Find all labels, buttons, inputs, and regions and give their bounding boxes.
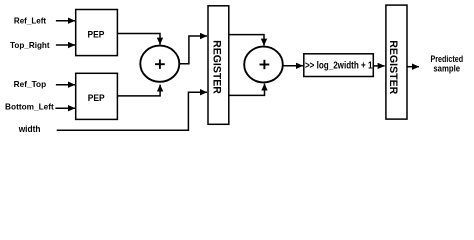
svg-text:REGISTER: REGISTER: [387, 40, 399, 94]
wire shifter U4 output to REGISTER U5: [374, 65, 385, 67]
block shifter U4 log_2width: [304, 54, 374, 77]
wire arrow Ref_Left to PEP U1 pin 1: [56, 20, 75, 22]
plus sign adder A1: [155, 60, 165, 69]
register U3: [208, 6, 229, 125]
svg-text:width: width: [18, 124, 41, 134]
svg-text:Ref_Top: Ref_Top: [14, 79, 47, 89]
wire REGISTER U3 lower output to adder A2 bottom: [229, 84, 265, 96]
wire arrow Top_Right to PEP U1 pin 2: [56, 44, 75, 46]
wire arrow Bottom_Left to PEP U2 pin 2: [55, 107, 75, 109]
svg-text:>> log_2width + 1: >> log_2width + 1: [305, 60, 373, 71]
wire adder A1 output to REGISTER U3 upper input: [179, 36, 207, 64]
svg-text:REGISTER: REGISTER: [211, 40, 223, 94]
adder A1: [140, 46, 179, 82]
svg-text:Top_Right: Top_Right: [10, 40, 50, 50]
wire PEP U2 output to adder A1 bottom: [117, 85, 160, 96]
wire width to REGISTER U3 lower input: [57, 92, 207, 130]
plus sign adder A2: [260, 60, 270, 69]
wire PEP U1 output to adder A1 top: [117, 34, 160, 45]
svg-text:PEP: PEP: [88, 93, 105, 104]
svg-text:PEP: PEP: [87, 30, 104, 41]
block PEP U2: [76, 73, 118, 119]
svg-text:sample: sample: [433, 63, 460, 73]
wire adder A2 output to shifter U4: [283, 65, 303, 67]
svg-text:Bottom_Left: Bottom_Left: [5, 102, 54, 112]
wire REGISTER U3 upper output to adder A2 top: [229, 35, 264, 46]
block PEP U1: [76, 10, 118, 56]
node label Predicted sample: [431, 54, 464, 73]
wire arrow Ref_Top to PEP U2 pin 1: [56, 84, 75, 86]
register U5: [386, 5, 407, 119]
wire output arrow Predicted sample: [407, 66, 419, 68]
svg-text:Ref_Left: Ref_Left: [14, 16, 46, 26]
adder A2: [244, 47, 283, 83]
